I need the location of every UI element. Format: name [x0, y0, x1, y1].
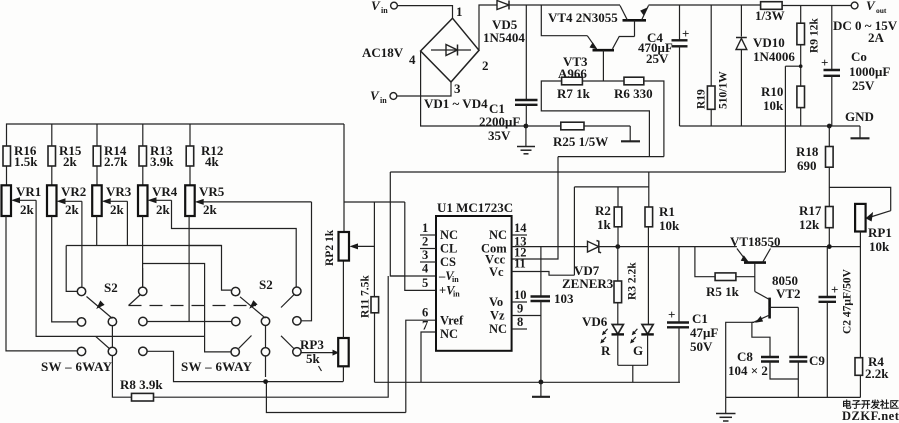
wire top-left bus: [7, 124, 345, 146]
svg-text:8: 8: [517, 315, 523, 329]
wire rail A VD5 to VT4 collector: [509, 4, 620, 6]
resistor R10: [761, 84, 805, 126]
pin 12 Vcc: [485, 246, 527, 267]
svg-text:47μF: 47μF: [690, 325, 718, 340]
svg-text:2.7k: 2.7k: [104, 154, 128, 169]
svg-text:C9: C9: [809, 353, 825, 368]
potentiometer RP3: [300, 337, 349, 366]
pin 2 CL: [420, 235, 457, 256]
wire VR1 bottom to S2a bottom-left contact: [6, 216, 77, 351]
svg-text:R10: R10: [761, 84, 783, 99]
wire VR2 bottom to S2a middle-left contact: [52, 216, 77, 322]
svg-text:R: R: [601, 343, 611, 358]
svg-text:Co: Co: [851, 49, 867, 64]
svg-text:V: V: [370, 88, 380, 103]
pin 14 NC: [489, 221, 527, 242]
wire RP1 wiper link: [829, 187, 890, 210]
resistor R17: [799, 203, 833, 247]
svg-text:Vref: Vref: [440, 314, 464, 328]
potentiometer VR1: [2, 184, 42, 217]
ground (C1): [517, 126, 535, 154]
terminal Vin bottom: [370, 88, 397, 105]
wire y321.5 S2a middle-right to S2b middle-left: [147, 321, 231, 323]
svg-text:2k: 2k: [65, 202, 80, 217]
svg-text:RP2 1k: RP2 1k: [324, 229, 336, 266]
potentiometer VR3: [92, 184, 132, 217]
wire VT2 emitter to ground: [726, 322, 754, 397]
svg-text:C2 47μF/50V: C2 47μF/50V: [842, 268, 854, 334]
wire feedback riser x785.4: [784, 66, 786, 172]
wire bus riser to RP2 top: [343, 124, 345, 232]
svg-text:104 × 2: 104 × 2: [728, 363, 768, 378]
svg-text:3: 3: [422, 248, 428, 262]
capacitor C4: [638, 5, 689, 126]
wire S2b middle-right to VR5 wiper riser: [302, 202, 312, 321]
svg-text:DC 0 ~ 15V: DC 0 ~ 15V: [833, 18, 898, 33]
svg-text:1: 1: [456, 4, 463, 19]
svg-text:VR3: VR3: [106, 184, 132, 199]
wire bridge node4 down to ground rail: [421, 51, 526, 126]
wire y263.5 branch to junction x204.5: [143, 264, 205, 337]
svg-text:10k: 10k: [659, 218, 680, 233]
wire S2a bottom-right to dot x265.6: [147, 351, 343, 381]
wire Vin top to bridge node1: [397, 6, 452, 19]
wire VT1 collector to right: [771, 246, 861, 248]
svg-text:12k: 12k: [799, 217, 820, 232]
svg-text:+: +: [682, 26, 689, 41]
svg-text:1k: 1k: [597, 217, 612, 232]
potentiometer RP2: [324, 229, 374, 266]
zener diode VD7: [562, 241, 614, 292]
svg-text:510/1W: 510/1W: [718, 71, 730, 109]
svg-text:R1: R1: [659, 204, 675, 219]
wire y382.3 to C1 area: [375, 381, 681, 383]
wire long sense wire y172: [390, 171, 785, 173]
wire VR5 bottom down to y321.5: [188, 216, 190, 322]
junction dot: [524, 124, 529, 129]
resistor R7: [557, 77, 591, 101]
svg-text:V: V: [866, 0, 876, 13]
LED VD6 R: [582, 314, 624, 365]
transistor VT4 2N3055: [548, 6, 649, 37]
svg-text:ZENER3: ZENER3: [562, 276, 614, 291]
terminal Vin top: [371, 0, 397, 15]
svg-text:out: out: [876, 6, 887, 15]
svg-text:+: +: [831, 282, 838, 297]
svg-text:SW – 6WAY: SW – 6WAY: [181, 359, 253, 374]
svg-text:VD1 ~ VD4: VD1 ~ VD4: [424, 96, 488, 111]
wire y202 band: [344, 201, 405, 203]
op-amp U1 MC1723C box: [436, 200, 513, 351]
wire R2 top link y186.9: [574, 186, 648, 188]
wire bridge node2 riser to top rail: [479, 5, 497, 50]
wire feedback riser x390: [389, 172, 391, 202]
svg-text:3: 3: [454, 81, 461, 96]
svg-text:2k: 2k: [156, 202, 171, 217]
svg-text:10: 10: [514, 288, 527, 302]
ground (GND bar): [851, 126, 870, 138]
wire zener to VT1 emitter: [599, 246, 737, 248]
wire: [6, 166, 8, 185]
wire ground rail right segment: [680, 125, 861, 127]
resistor R1: [645, 172, 680, 325]
svg-text:CS: CS: [440, 255, 456, 269]
svg-text:VD10: VD10: [753, 35, 785, 50]
svg-text:2k: 2k: [63, 154, 78, 169]
wire R7 left loop down: [541, 81, 649, 157]
junction dots rail: [827, 124, 832, 129]
wire S2b bottom-right diagonal: [281, 336, 294, 349]
svg-text:3.9k: 3.9k: [150, 154, 174, 169]
ground (chassis bar after R25): [621, 126, 640, 141]
wire S2a pole to R8 left: [112, 326, 131, 397]
wire R6 right down to Vcc wire: [644, 81, 664, 157]
svg-text:R11 7.5k: R11 7.5k: [360, 275, 372, 318]
svg-text:SW – 6WAY: SW – 6WAY: [41, 359, 113, 374]
svg-text:1/3W: 1/3W: [755, 8, 785, 23]
potentiometer VR4: [138, 184, 178, 217]
svg-text:25V: 25V: [852, 78, 875, 93]
wire pin5 stair: [405, 202, 436, 290]
wire S2a top-right diagonal to dash: [129, 295, 141, 306]
svg-text:5: 5: [422, 276, 428, 290]
svg-text:NC: NC: [440, 228, 458, 242]
svg-text:S2: S2: [104, 280, 118, 295]
svg-text:CL: CL: [440, 242, 457, 256]
wire RP1 bottom to R4: [859, 232, 861, 358]
wire pin7 drop: [421, 332, 436, 382]
svg-text:35V: 35V: [488, 128, 511, 143]
svg-text:R6 330: R6 330: [614, 86, 653, 101]
wire rail B: VT4 emitter to Vout: [649, 4, 761, 6]
gang dashed link: [129, 305, 257, 307]
wire VR3 wiper down: [126, 201, 128, 245]
svg-text:R17: R17: [799, 203, 822, 218]
wire y156.6 Vcc link: [558, 156, 664, 158]
wire pin11 Vc staircase: [512, 272, 575, 276]
resistor R5: [695, 247, 755, 299]
wire VR4 wiper route to S2b top-right contact: [172, 200, 297, 287]
svg-text:in: in: [381, 6, 388, 15]
svg-text:RP3: RP3: [300, 337, 324, 352]
svg-text:R18: R18: [796, 144, 819, 159]
pin 10 Vo: [489, 288, 527, 309]
resistor R4: [855, 354, 889, 397]
junction dot R17 bottom: [827, 244, 832, 249]
svg-text:DZKF.net: DZKF.net: [842, 409, 899, 423]
svg-text:U1 MC1723C: U1 MC1723C: [437, 200, 513, 215]
capacitor C1 2200uF: [479, 5, 538, 143]
svg-text:in: in: [380, 96, 387, 105]
svg-text:VT4 2N3055: VT4 2N3055: [548, 10, 618, 25]
wire Vin bottom to bridge node3: [397, 82, 451, 96]
potentiometer VR2: [47, 184, 86, 217]
wire RP3 bottom: [342, 366, 344, 381]
svg-text:NC: NC: [489, 228, 507, 242]
transistor VT2 8050: [754, 273, 801, 323]
wire S2a top-right contact riser: [142, 268, 144, 287]
resistor R6: [614, 77, 653, 101]
switch S2b contacts: [231, 287, 301, 356]
svg-text:NC: NC: [489, 322, 507, 336]
svg-text:NC: NC: [440, 327, 458, 341]
svg-text:6: 6: [422, 306, 428, 320]
resistor R18: [796, 126, 833, 207]
wire VR4 bottom down: [142, 216, 144, 287]
svg-text:S2: S2: [259, 277, 273, 292]
ground (output stage): [716, 397, 736, 421]
wire R9/R10 junction to feedback riser: [785, 65, 800, 67]
svg-text:V: V: [371, 0, 381, 13]
svg-text:Vc: Vc: [489, 265, 504, 279]
wire bottom bus y412.5: [266, 382, 405, 413]
wire R11 bottom to y382.3: [374, 313, 376, 383]
wire S2b pole chain down through bottom-center contact: [265, 326, 267, 377]
diode VD10: [736, 5, 795, 126]
wire VR1 wiper down and long wire y336: [36, 200, 205, 336]
svg-text:1.5k: 1.5k: [14, 154, 38, 169]
wire S2b bottom-left diagonal: [239, 336, 252, 349]
resistor R13: [139, 124, 174, 185]
svg-text:10k: 10k: [763, 98, 784, 113]
resistor R16: [3, 143, 38, 169]
svg-text:4: 4: [422, 262, 429, 276]
svg-text:2k: 2k: [20, 202, 35, 217]
transistor VT1 8550: [730, 234, 781, 292]
wire S2b bottom-left to y336 junction: [205, 336, 231, 352]
pin 4 -Vin: [422, 262, 459, 285]
wire diagonal y336 to S2a bottom-center contact: [96, 336, 111, 350]
svg-text:VR4: VR4: [152, 184, 178, 199]
svg-text:R3 2.2k: R3 2.2k: [627, 262, 639, 300]
wire tap bus y245.5: [66, 245, 221, 247]
label DC 0~15V 2A: [833, 18, 898, 45]
svg-text:R7 1k: R7 1k: [557, 86, 591, 101]
svg-text:2k: 2k: [203, 202, 218, 217]
resistor R2: [595, 187, 622, 247]
capacitor Co: [821, 6, 890, 127]
wire rail B after 1/3W to Vout: [782, 5, 851, 7]
switch S2b wiper arrow: [240, 297, 266, 318]
pin 8 NC: [489, 315, 527, 336]
wire R7 to base node to R6: [582, 80, 624, 82]
svg-text:VR2: VR2: [61, 184, 86, 199]
switch S2a wiper arrow: [87, 297, 113, 319]
svg-text:2.2k: 2.2k: [865, 366, 889, 381]
resistor R12: [186, 124, 223, 185]
svg-text:G: G: [633, 343, 643, 358]
svg-text:2: 2: [482, 58, 489, 73]
svg-text:9: 9: [517, 302, 523, 316]
resistor R11: [360, 202, 379, 318]
resistor R8: [120, 377, 163, 401]
svg-text:2A: 2A: [868, 30, 885, 45]
capacitor 103: [531, 247, 575, 382]
svg-text:25V: 25V: [646, 51, 669, 66]
capacitor C2: [819, 247, 854, 398]
watermark: [842, 399, 899, 423]
wire VR5 branch to S2b top-left contact: [189, 246, 231, 291]
svg-text:VD6: VD6: [582, 314, 608, 329]
switch S2a contacts: [77, 287, 147, 356]
svg-text:R2: R2: [595, 203, 611, 218]
wire VR2 wiper down to S2a top-left contact: [81, 201, 83, 286]
potentiometer VR5: [185, 184, 311, 217]
pin 3 CS: [420, 248, 456, 269]
svg-text:1N4006: 1N4006: [753, 49, 795, 64]
svg-text:2200μF: 2200μF: [479, 114, 520, 129]
svg-text:AC18V: AC18V: [362, 45, 404, 60]
svg-text:690: 690: [797, 158, 817, 173]
svg-text:10k: 10k: [869, 239, 890, 254]
svg-text:4: 4: [409, 52, 416, 67]
pin 5 +Vin: [422, 276, 460, 299]
svg-text:VR5: VR5: [199, 184, 225, 199]
terminal Vout: [851, 0, 887, 15]
wire Vcc riser to pin12: [512, 157, 558, 259]
wire x404.8 y276 link: [390, 275, 405, 277]
pin 9 Vz: [490, 302, 541, 323]
resistor R15: [48, 124, 82, 185]
svg-text:+: +: [668, 307, 675, 322]
svg-text:VR1: VR1: [16, 184, 41, 199]
wire Vcc staircase riser x574.4: [573, 187, 575, 275]
wire VR3 bottom to tap bus y245.5: [96, 216, 98, 246]
bridge rectifier VD1-VD4: [409, 4, 489, 111]
wire pin6 Vref drop: [406, 320, 436, 412]
capacitor C9: [789, 307, 825, 397]
svg-text:R25 1/5W: R25 1/5W: [553, 134, 608, 149]
svg-text:103: 103: [554, 291, 574, 306]
svg-text:in: in: [453, 290, 460, 299]
resistor 1/3W (in series with output): [755, 2, 785, 23]
wire RP2-RP3 column: [342, 261, 344, 338]
svg-text:11: 11: [514, 257, 526, 271]
svg-text:Vz: Vz: [490, 309, 505, 323]
svg-text:Vo: Vo: [489, 295, 503, 309]
junction dot R2/R3: [615, 244, 620, 249]
resistor R25: [526, 122, 608, 149]
svg-text:R19: R19: [696, 89, 708, 109]
svg-text:R8 3.9k: R8 3.9k: [120, 377, 163, 392]
resistor R19: [696, 5, 730, 126]
capacitor C8: [728, 322, 798, 379]
pin 13 Com: [481, 235, 527, 256]
resistor R14: [93, 124, 128, 185]
resistor R3: [614, 247, 639, 325]
svg-text:RP1: RP1: [868, 225, 892, 240]
svg-text:14: 14: [514, 221, 527, 235]
transistor VT3 A966: [558, 36, 635, 81]
wire Com/zener rail y246.6 left part: [512, 246, 588, 248]
svg-text:2k: 2k: [110, 202, 125, 217]
svg-text:5k: 5k: [306, 351, 321, 366]
potentiometer RP1: [855, 204, 892, 254]
wire ground bus y397.4: [726, 396, 861, 398]
wire R25 right to chassis: [584, 125, 630, 127]
pin 7 NC: [422, 319, 458, 342]
svg-text:7: 7: [422, 319, 428, 333]
svg-text:GND: GND: [845, 109, 874, 124]
svg-text:50V: 50V: [690, 339, 713, 354]
svg-text:4k: 4k: [205, 154, 220, 169]
pin 6 Vref: [422, 306, 464, 328]
LED VD6 G: [630, 325, 654, 366]
wire S2b top-right diagonal: [281, 295, 294, 308]
ground (IC common): [532, 382, 550, 397]
wire pin4 stair: [390, 202, 436, 276]
pin 11 Vc: [489, 257, 526, 280]
resistor R9: [797, 5, 821, 86]
wire VT3 emitter feed from rail A: [541, 5, 587, 36]
capacitor C1 47uF: [667, 247, 718, 383]
svg-text:R5 1k: R5 1k: [706, 284, 740, 299]
junction dot ground node: [539, 380, 544, 385]
pin 1 NC: [420, 221, 458, 242]
svg-text:VT2: VT2: [776, 286, 801, 301]
wire R8 right to pin4 riser: [154, 276, 389, 397]
junction dot: [263, 379, 268, 384]
wire to S2a top-left contact: [66, 246, 77, 292]
svg-text:1000μF: 1000μF: [849, 64, 890, 79]
svg-text:+: +: [821, 55, 828, 70]
svg-text:1: 1: [422, 221, 428, 235]
svg-text:2: 2: [422, 235, 428, 249]
svg-text:C8: C8: [737, 349, 753, 364]
svg-text:R9 12k: R9 12k: [809, 18, 821, 53]
diode VD5: [483, 1, 525, 46]
svg-text:1N5404: 1N5404: [483, 30, 525, 45]
wire LED bottoms join: [618, 365, 648, 382]
svg-text:C1: C1: [692, 311, 708, 326]
